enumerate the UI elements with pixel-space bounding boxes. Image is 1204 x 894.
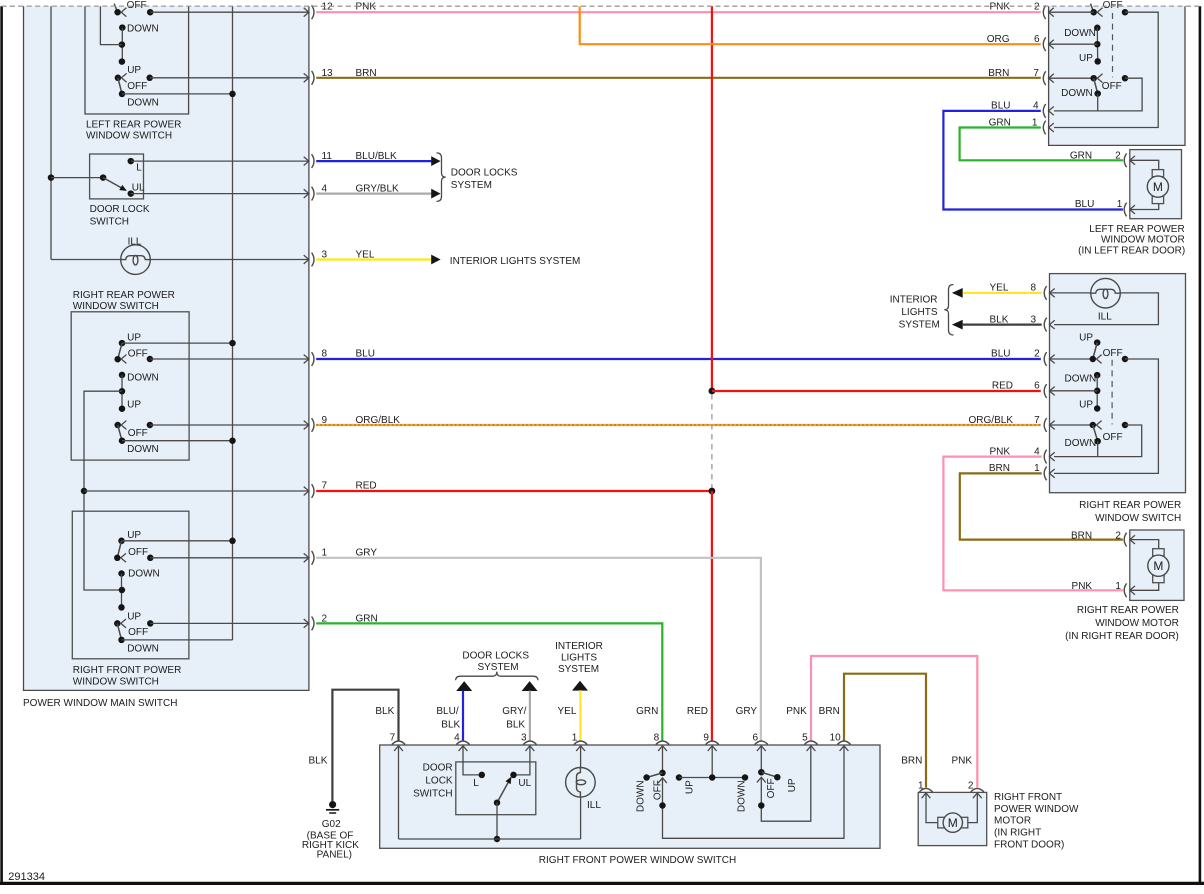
wire GRN lr-door pin1 to motor pin2 <box>960 128 1123 161</box>
rf pin1 wire through ILL bulb <box>580 746 582 768</box>
RED vertical to right front switch pin9 <box>711 491 713 741</box>
RIGHT REAR POWER WINDOW SWITCH sub-box <box>71 312 189 460</box>
svg-text:BRN: BRN <box>1071 530 1092 541</box>
svg-text:UP: UP <box>127 611 141 622</box>
rf bank UP contact <box>676 774 683 781</box>
svg-text:ILL: ILL <box>1098 312 1112 323</box>
lr-door bank1 pivot <box>1090 9 1097 16</box>
svg-text:DOOR LOCKS: DOOR LOCKS <box>451 168 518 179</box>
wire L contact to pin 11 <box>131 160 309 162</box>
rf switch pin connector x=712.2 <box>706 741 719 745</box>
svg-text:12: 12 <box>322 2 334 13</box>
rf motor pin1 connector <box>919 788 932 792</box>
svg-text:8: 8 <box>322 349 328 360</box>
svg-text:OFF: OFF <box>128 348 148 359</box>
svg-text:YEL: YEL <box>557 706 576 717</box>
rr-door pin8 connector <box>1044 286 1046 300</box>
svg-text:UL: UL <box>132 183 145 194</box>
svg-text:WINDOW SWITCH: WINDOW SWITCH <box>73 676 159 687</box>
rf feed wire UP-DOWN contacts <box>679 777 745 779</box>
DOOR LOCKS SYSTEM brace <box>437 153 446 202</box>
svg-text:4: 4 <box>454 732 460 743</box>
svg-text:UP: UP <box>685 780 696 794</box>
wire YEL right rear switch pin8 <box>963 292 1042 294</box>
wire BRN pin13 to left rear switch pin7 <box>316 77 1041 79</box>
RED vertical feed top <box>711 6 713 391</box>
svg-text:DOWN: DOWN <box>1064 28 1096 39</box>
door locks system arrow 1 <box>431 156 440 166</box>
wire RED branch to right rear switch pin6 <box>712 390 1041 392</box>
wire OFF contact to pin 2 <box>150 622 309 624</box>
svg-text:WINDOW MOTOR: WINDOW MOTOR <box>1101 234 1185 245</box>
rf switch pin connector x=662.5 <box>656 741 669 745</box>
svg-text:9: 9 <box>703 732 709 743</box>
left rear switch bank1 pivot <box>114 9 121 16</box>
wire BLK right rear switch pin3 <box>963 324 1042 326</box>
rf switch pin connector x=761.3 <box>755 741 768 745</box>
svg-text:DOOR: DOOR <box>423 762 453 773</box>
rf switch pin connector x=463 <box>456 741 469 745</box>
svg-text:RIGHT REAR POWER: RIGHT REAR POWER <box>1079 500 1181 511</box>
svg-text:POWER WINDOW MAIN SWITCH: POWER WINDOW MAIN SWITCH <box>23 698 177 709</box>
rr-door bank2 DOWN contact <box>1094 438 1101 445</box>
LEFT REAR POWER WINDOW SWITCH sub-box <box>85 6 189 114</box>
rf switch bank2 UP contact <box>118 604 125 611</box>
svg-text:OFF: OFF <box>652 780 663 800</box>
rr switch bank1 pivot <box>114 356 121 363</box>
svg-text:POWER WINDOW: POWER WINDOW <box>994 804 1079 815</box>
door locks arrow up 2 <box>522 681 538 691</box>
vertical wire x=51 (ILL/door-lock feed) <box>50 6 52 259</box>
junction feed line <box>229 91 236 98</box>
wire BRN rr-door pin1 to rr motor pin2 <box>960 473 1123 539</box>
svg-text:DOWN: DOWN <box>128 569 160 580</box>
svg-text:RIGHT FRONT: RIGHT FRONT <box>994 792 1062 803</box>
svg-text:BRN: BRN <box>819 706 840 717</box>
rr motor pin2 connector <box>1124 533 1126 547</box>
RIGHT FRONT POWER WINDOW MOTOR box <box>918 792 987 845</box>
rr-door junction RED pin6 <box>1094 388 1101 395</box>
svg-text:INTERIOR: INTERIOR <box>555 641 603 652</box>
svg-text:UP: UP <box>127 530 141 541</box>
rr switch bank2 DOWN contact <box>119 437 126 444</box>
svg-text:2: 2 <box>1115 530 1121 541</box>
svg-text:GRY: GRY <box>356 547 378 558</box>
svg-text:2: 2 <box>1034 349 1040 360</box>
svg-text:UP: UP <box>1079 53 1093 64</box>
door lock lever with arrow <box>103 178 125 190</box>
wire GRY/BLK pin4 to door locks system <box>316 193 431 195</box>
rr-door bank2 pivot <box>1090 422 1097 429</box>
rr-door bank2 lever <box>1093 425 1098 441</box>
left feed wire rr <box>84 391 122 590</box>
svg-text:OFF: OFF <box>127 0 147 11</box>
interior lights brace (right) <box>944 285 953 336</box>
dl2 lever with arrow <box>497 779 510 803</box>
lr-door bank1 lever <box>1091 4 1094 13</box>
svg-text:L: L <box>136 163 142 174</box>
rr switch bank1 moving-contact arrow <box>121 355 126 364</box>
wire UP contact to feed line <box>122 342 233 344</box>
LEFT REAR POWER WINDOW SWITCH (in door) box <box>1049 6 1185 145</box>
lr-door wire DOWN contact down <box>1097 94 1099 111</box>
svg-text:SYSTEM: SYSTEM <box>558 664 599 675</box>
rr switch bank1 OFF contact <box>147 356 154 363</box>
rr switch bank2 OFF contact <box>147 422 154 429</box>
LEFT REAR POWER WINDOW MOTOR box <box>1130 150 1182 219</box>
svg-text:DOWN: DOWN <box>127 644 159 655</box>
left rear switch bank1 moving-contact arrow <box>121 8 126 17</box>
interior lights arrow YEL <box>952 288 963 298</box>
wire DOWN contact to feed line rf2 <box>122 639 233 641</box>
wire ORG/BLK pin9 to right rear switch pin7 <box>316 424 1041 426</box>
svg-text:2: 2 <box>1034 2 1040 13</box>
rr switch bank1 lever <box>118 343 122 359</box>
rf switch pin connector x=529.9 <box>523 741 536 745</box>
junction red lower <box>709 488 716 495</box>
motor M1 left rear <box>1152 170 1163 177</box>
junction chain / left feed rf <box>119 587 126 594</box>
svg-text:OFF: OFF <box>128 547 148 558</box>
svg-text:10: 10 <box>830 732 842 743</box>
svg-text:WINDOW MOTOR: WINDOW MOTOR <box>1095 618 1179 629</box>
svg-text:BLU: BLU <box>356 349 375 360</box>
lr-door switch pin4 connector <box>1043 104 1045 118</box>
svg-text:BLK: BLK <box>375 706 394 717</box>
junction ground bus <box>494 836 501 843</box>
svg-text:OFF: OFF <box>128 428 148 439</box>
junction chain / left feed <box>119 388 126 395</box>
svg-text:LIGHTS: LIGHTS <box>561 652 597 663</box>
lr-door connector stub pin7 <box>1049 77 1094 79</box>
lr-door wire bank1 contact to pin1 <box>1054 12 1158 127</box>
svg-text:LOCK: LOCK <box>425 775 453 786</box>
page top crop dashed line (over boxes) <box>2 5 1201 7</box>
svg-text:PNK: PNK <box>951 756 972 767</box>
svg-text:8: 8 <box>1031 283 1037 294</box>
lr-door bank1 moving-contact arrow <box>1097 8 1102 17</box>
wire PNK pin12 to left rear switch pin2 <box>316 11 1041 13</box>
rr switch bank2 moving-contact arrow <box>121 421 126 430</box>
svg-text:PNK: PNK <box>1072 581 1093 592</box>
svg-text:1: 1 <box>1115 581 1121 592</box>
svg-text:OFF: OFF <box>766 778 777 798</box>
svg-text:(IN RIGHT REAR DOOR): (IN RIGHT REAR DOOR) <box>1065 631 1179 642</box>
svg-text:8: 8 <box>654 732 660 743</box>
svg-text:DOWN: DOWN <box>127 24 159 35</box>
door locks brace (bottom) <box>456 672 538 681</box>
rf bank-left lever <box>647 773 663 778</box>
rr-door UP contact 2 <box>1094 405 1101 412</box>
svg-text:DOWN: DOWN <box>127 97 159 108</box>
svg-text:OFF: OFF <box>1103 348 1123 359</box>
svg-text:OFF: OFF <box>1102 81 1122 92</box>
rf bank-left pivot <box>659 770 666 777</box>
svg-text:6: 6 <box>752 732 758 743</box>
ground G02 <box>329 801 336 808</box>
lr-door UP contact <box>1094 58 1101 65</box>
svg-text:DOOR LOCKS: DOOR LOCKS <box>462 650 529 661</box>
svg-text:UP: UP <box>1079 399 1093 410</box>
wire UP contact to feed line rf <box>122 540 233 542</box>
svg-text:OFF: OFF <box>128 627 148 638</box>
RIGHT REAR POWER WINDOW SWITCH (in door) box <box>1050 274 1186 493</box>
rr-door bank1 UP contact <box>1094 339 1101 346</box>
svg-text:FRONT DOOR): FRONT DOOR) <box>994 839 1064 850</box>
svg-text:INTERIOR LIGHTS SYSTEM: INTERIOR LIGHTS SYSTEM <box>450 256 581 267</box>
wire OFF contact to pin 1 <box>150 557 309 559</box>
rr-door connector stub pin7 <box>1050 424 1093 426</box>
wire GRN pin2 to right front switch pin8 <box>316 623 662 740</box>
dl2 pin4 wire <box>463 746 482 775</box>
svg-text:1: 1 <box>572 732 578 743</box>
wire OFF contact to pin 9 <box>150 424 309 426</box>
rr-door pin4 connector <box>1044 450 1046 464</box>
left rear switch bank2 pivot <box>115 75 122 82</box>
wire UL contact to pin 4 <box>131 193 309 195</box>
rr-door bank1 pivot <box>1090 356 1097 363</box>
rf bank-right pivot <box>758 769 765 776</box>
svg-text:DOOR LOCK: DOOR LOCK <box>90 204 150 215</box>
rf ground bus wire <box>399 838 581 840</box>
page top crop dashed line <box>2 5 1201 7</box>
rf bank-right moving-contact arrow <box>757 777 766 782</box>
junction red/branch <box>709 388 716 395</box>
left rear switch bank2 UP contact <box>119 58 126 65</box>
left rear switch bank2 DOWN contact <box>119 91 126 98</box>
svg-text:PNK: PNK <box>786 706 807 717</box>
junction on x=51 feed <box>48 174 55 181</box>
svg-text:UP: UP <box>787 778 798 792</box>
dl2 UL contact <box>510 772 517 779</box>
rr-door wire bank2 contact to pin4 <box>1054 425 1142 457</box>
POWER WINDOW MAIN SWITCH box <box>24 6 309 690</box>
rr-door bank2 OFF contact <box>1122 422 1129 429</box>
svg-text:5: 5 <box>802 732 808 743</box>
wire bank2 OFF contact to pin 13 <box>150 77 309 79</box>
wire GRY/BLK rf switch pin3 <box>529 691 531 741</box>
lr-door connector stub pin2 <box>1049 11 1094 13</box>
svg-text:GRY: GRY <box>736 706 758 717</box>
lr-door dashed detent link <box>1112 13 1114 77</box>
rf bank-left junction dot <box>659 802 666 809</box>
rf pin6 wire down <box>760 746 762 772</box>
rr switch bank2 pivot <box>114 422 121 429</box>
lr motor internal wires <box>1130 160 1159 169</box>
rf bank-right lever <box>761 772 777 777</box>
svg-text:1: 1 <box>918 780 924 791</box>
rf pin9 wire down <box>711 746 713 778</box>
svg-text:UP: UP <box>127 332 141 343</box>
rr-door bank1 OFF contact <box>1122 356 1129 363</box>
rr-door connector stub pin6 <box>1050 390 1098 392</box>
DOOR LOCK SWITCH box <box>90 154 144 199</box>
svg-text:SWITCH: SWITCH <box>90 217 129 228</box>
left rear switch bank1 OFF contact <box>147 9 154 16</box>
rr-door wire DOWN contact down <box>1097 441 1099 456</box>
motor M3 right front <box>938 817 945 828</box>
svg-text:OFF: OFF <box>1103 432 1123 443</box>
RIGHT FRONT POWER WINDOW SWITCH sub-box <box>72 511 189 659</box>
rf motor pin2 connector <box>971 788 984 792</box>
svg-text:BLU: BLU <box>991 349 1010 360</box>
rf bank-left DOWN contact <box>643 774 650 781</box>
lr-door DOWN contact <box>1094 25 1101 32</box>
svg-text:BRN: BRN <box>901 756 922 767</box>
wire BLU pin8 to right rear switch pin2 <box>316 358 1041 360</box>
left feed wire of left rear switch <box>100 6 122 44</box>
rf chain wire <box>121 574 123 608</box>
svg-text:1: 1 <box>1117 199 1123 210</box>
svg-text:6: 6 <box>1034 381 1040 392</box>
svg-text:PNK: PNK <box>356 2 377 13</box>
lr-door bank2 pivot <box>1090 75 1097 82</box>
rr-door connector stub pin2 <box>1050 358 1093 360</box>
wire YEL pin3 to interior lights system <box>316 258 431 260</box>
rr chain wire <box>121 375 123 409</box>
svg-text:GRY/: GRY/ <box>502 706 526 717</box>
lr-door bank2 DOWN contact <box>1094 90 1101 97</box>
lr-door switch pin1 connector <box>1043 121 1045 135</box>
svg-text:PNK: PNK <box>989 2 1010 13</box>
svg-text:M: M <box>1153 180 1163 194</box>
rr motor internal wires <box>1130 540 1159 549</box>
wire DOWN chain <box>121 28 123 62</box>
junction left feed / RED row <box>81 488 88 495</box>
rf switch bank1 OFF contact <box>147 555 154 562</box>
page right border <box>1199 6 1202 883</box>
wire OFF contact to pin 8 <box>150 358 309 360</box>
svg-text:RIGHT REAR POWER: RIGHT REAR POWER <box>1077 605 1179 616</box>
svg-text:DOWN: DOWN <box>1065 373 1097 384</box>
rf switch pin connector x=580.6 <box>574 741 587 745</box>
dl2 pivot <box>494 799 501 806</box>
lr-door switch pin7 connector <box>1043 71 1045 85</box>
rf pin7 wire down <box>398 746 400 839</box>
motor M2 right rear <box>1153 549 1164 556</box>
vertical feed wire x=232.5 <box>232 6 234 640</box>
rf pin8 wire down <box>662 746 664 773</box>
svg-text:SYSTEM: SYSTEM <box>451 180 492 191</box>
svg-text:MOTOR: MOTOR <box>994 816 1031 827</box>
rr switch bank1 UP contact <box>119 340 126 347</box>
left rear switch DOWN contact <box>119 24 126 31</box>
junction feed line rr2 <box>229 437 236 444</box>
rr-door wire bank1 contact to pin1 <box>1054 359 1158 473</box>
svg-text:UP: UP <box>1079 332 1093 343</box>
svg-text:OFF: OFF <box>127 81 147 92</box>
svg-text:7: 7 <box>1033 68 1039 79</box>
rf switch bank1 moving-contact arrow <box>121 553 126 562</box>
wire BLK rf switch pin7 to ground <box>332 690 398 802</box>
interior lights arrow up <box>572 681 588 691</box>
svg-text:GRN: GRN <box>1070 151 1092 162</box>
rf switch bank2 pivot <box>114 620 121 627</box>
page left border <box>0 6 3 883</box>
svg-text:3: 3 <box>521 732 527 743</box>
rf ILL bulb <box>566 768 596 798</box>
svg-text:L: L <box>473 778 479 789</box>
left rear switch bank2 lever <box>118 78 122 94</box>
lr-door chain wire <box>1096 28 1098 62</box>
wire YEL rf switch pin1 <box>579 690 581 740</box>
svg-text:YEL: YEL <box>989 283 1008 294</box>
door locks system arrow 2 <box>431 189 440 199</box>
svg-text:DOWN: DOWN <box>127 444 159 455</box>
door lock pivot <box>100 174 107 181</box>
svg-text:GRN: GRN <box>636 706 658 717</box>
DOOR LOCK SWITCH box (bottom) <box>456 762 536 815</box>
door locks arrow up 1 <box>456 681 472 691</box>
rr-door bank1 moving-contact arrow <box>1096 355 1101 364</box>
svg-text:UL: UL <box>518 778 531 789</box>
svg-text:(IN RIGHT: (IN RIGHT <box>994 827 1041 838</box>
svg-text:BLK: BLK <box>989 314 1008 325</box>
svg-text:7: 7 <box>1034 415 1040 426</box>
svg-text:ORG: ORG <box>987 34 1010 45</box>
wire GRY pin1 to right front switch pin6 <box>316 558 761 741</box>
svg-text:1: 1 <box>322 547 328 558</box>
junction feed line rr <box>229 340 236 347</box>
lr-door wire bank2 contact to pin4 <box>1054 78 1142 111</box>
RIGHT REAR POWER WINDOW MOTOR box <box>1130 530 1184 600</box>
wire BRN rf switch pin10 to rf motor pin1 <box>844 674 926 788</box>
svg-text:DOWN: DOWN <box>736 780 747 812</box>
wire BLU lr-door pin4 to motor pin1 <box>943 111 1123 210</box>
dl2 L contact <box>479 772 486 779</box>
lr-door connector stub pin6 <box>1049 43 1098 45</box>
rr-door dashed detent link <box>1111 360 1113 425</box>
rf bank-right junction dot <box>758 802 765 809</box>
svg-text:G02: G02 <box>322 819 341 830</box>
svg-text:6: 6 <box>1034 34 1040 45</box>
rf switch pin connector x=844 <box>837 741 850 745</box>
svg-text:RIGHT REAR POWER: RIGHT REAR POWER <box>73 290 175 301</box>
svg-text:LEFT REAR POWER: LEFT REAR POWER <box>1089 224 1184 235</box>
rr motor pin1 connector <box>1124 583 1126 597</box>
lr motor pin2 connector <box>1124 153 1126 167</box>
door lock L contact <box>128 158 135 165</box>
svg-text:DOWN: DOWN <box>1065 438 1097 449</box>
svg-text:LIGHTS: LIGHTS <box>901 307 937 318</box>
svg-text:M: M <box>948 816 958 830</box>
svg-text:BLK: BLK <box>506 719 525 730</box>
rf feed junction <box>709 774 716 781</box>
lr-door bank2 OFF contact <box>1122 75 1129 82</box>
page bottom border <box>0 882 1204 885</box>
wire RED pin7 to junction <box>316 490 712 492</box>
wire RED row internal <box>84 490 309 492</box>
svg-text:DOWN: DOWN <box>635 780 646 812</box>
rf switch DOWN contact <box>118 570 125 577</box>
lr-door bank2 lever <box>1094 78 1098 93</box>
svg-text:291334: 291334 <box>8 871 45 883</box>
svg-text:2: 2 <box>1115 151 1121 162</box>
svg-text:2: 2 <box>968 780 974 791</box>
rf bank DOWN contact (right) <box>742 774 749 781</box>
svg-text:LEFT REAR POWER: LEFT REAR POWER <box>86 119 181 130</box>
lr-door bank2 moving-contact arrow <box>1097 74 1102 83</box>
wire PNK rf switch pin5 to rf motor pin2 <box>811 656 977 788</box>
rr-door pin3 connector <box>1044 318 1046 332</box>
rr-door bulb circuit wire <box>1050 292 1091 294</box>
svg-text:7: 7 <box>390 732 396 743</box>
svg-text:WINDOW SWITCH: WINDOW SWITCH <box>1095 513 1181 524</box>
lr-door bank1 OFF contact <box>1122 9 1129 16</box>
wire feed to door lock pivot <box>51 177 103 179</box>
wire BLU/BLK rf switch pin4 <box>462 691 464 741</box>
svg-text:INTERIOR: INTERIOR <box>890 294 938 305</box>
